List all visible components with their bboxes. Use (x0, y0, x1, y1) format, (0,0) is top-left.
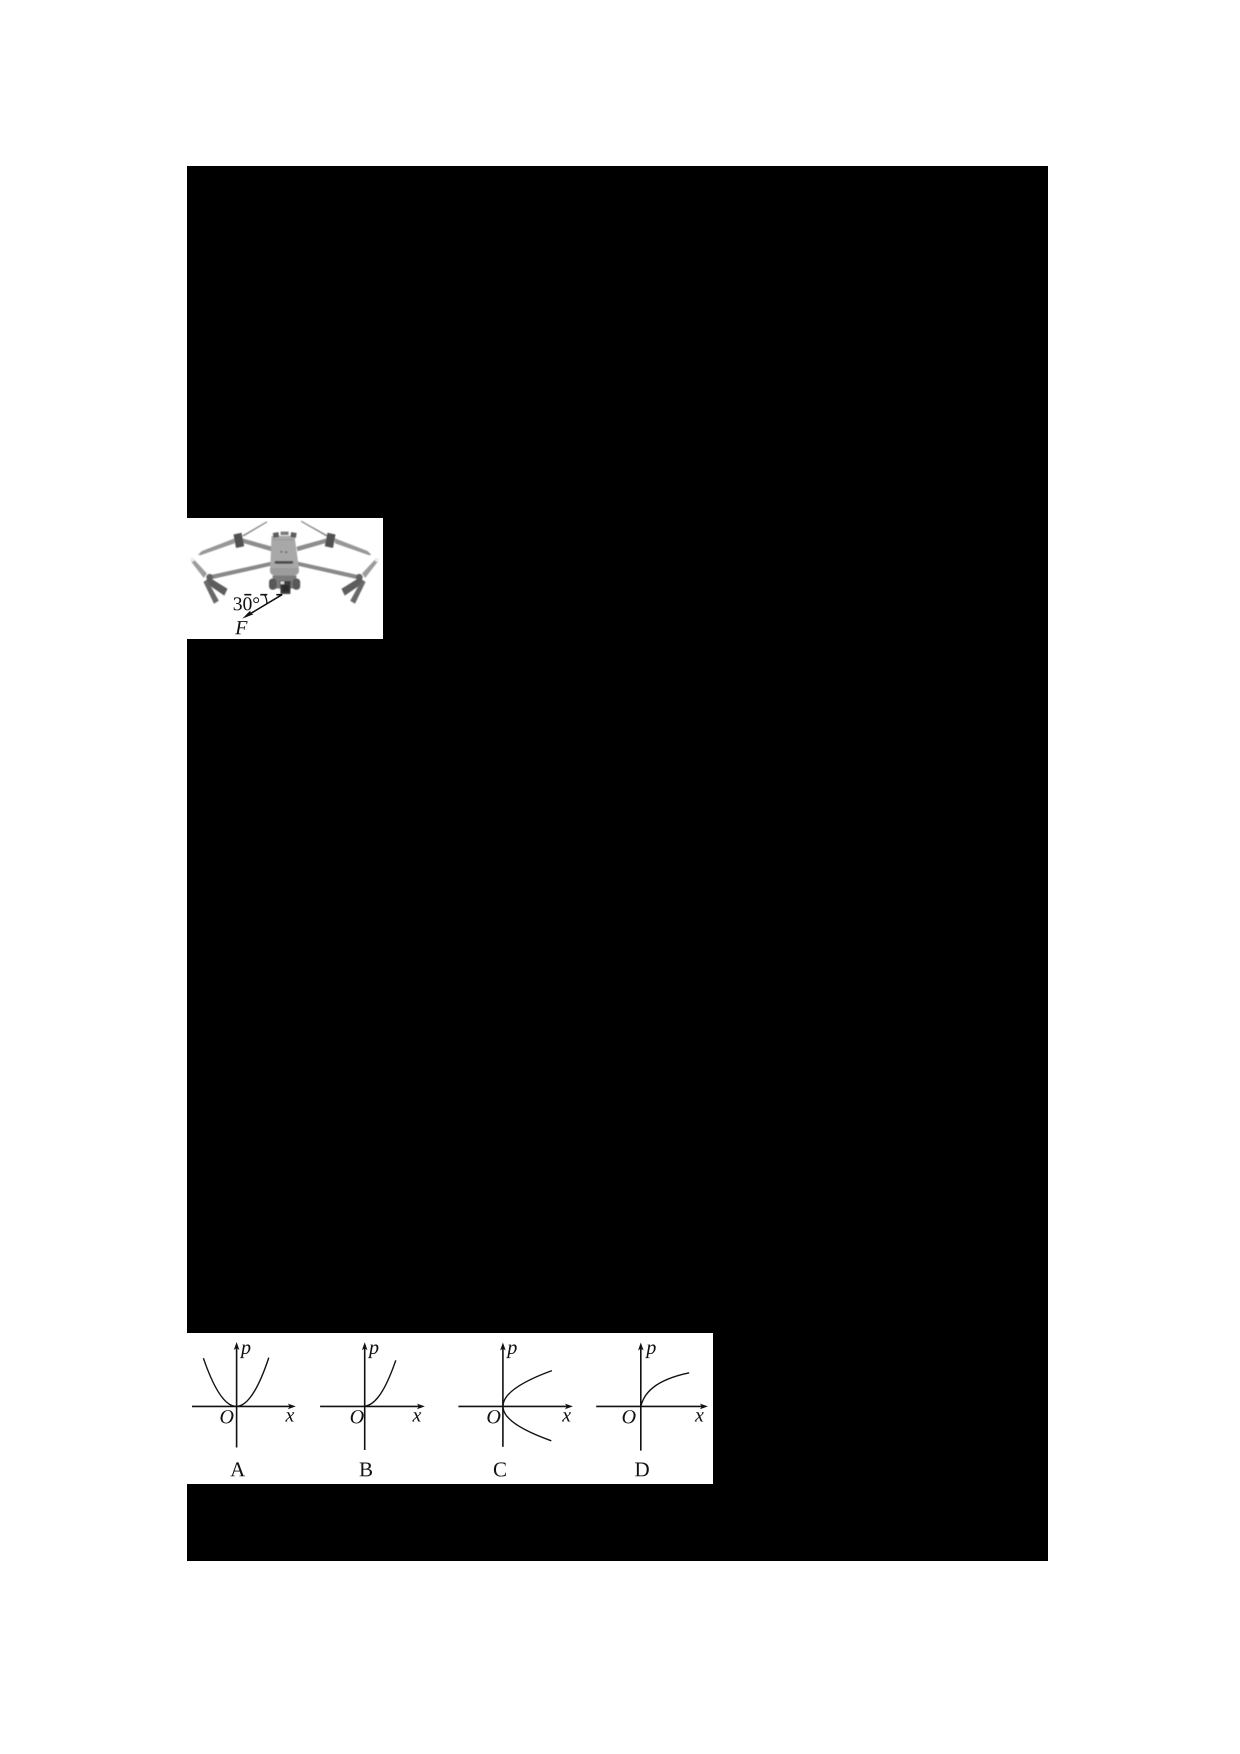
drone lower-right folded dark blade 1 (342, 577, 365, 596)
drone body shell (270, 535, 299, 575)
graph D label x (695, 1412, 704, 1421)
drone top-right wide propeller blade (334, 538, 371, 555)
graph D option letter D (635, 1462, 649, 1476)
graph C label p (506, 1344, 517, 1358)
drone body top sensor knobs (273, 532, 279, 538)
graph A label O (220, 1410, 233, 1423)
drone lower-right blade white tip (375, 557, 379, 561)
graph D label O (622, 1410, 635, 1423)
graph B exponential curve (365, 1360, 396, 1406)
drone arm lower-left (209, 561, 271, 579)
drone arm upper-left (238, 537, 272, 551)
drone top-left motor mount (234, 532, 245, 547)
graph D sqrt curve (641, 1372, 689, 1406)
angle arc 30 degrees (265, 594, 267, 603)
graph C label O (487, 1410, 500, 1423)
black content block (187, 166, 1048, 1561)
drone lower-right rotor hub (356, 574, 363, 581)
force arrow F shaft (246, 594, 283, 616)
dashed horizontal reference line (244, 593, 282, 595)
drone lower-left folded dark blade 1 (205, 577, 228, 596)
drone figure white box (187, 518, 383, 639)
graph A option letter A (230, 1462, 245, 1476)
graph D axis arrowheads (638, 1342, 644, 1350)
drone lower-left rotor hub (206, 574, 213, 581)
label F (235, 621, 248, 634)
graph B label O (351, 1410, 364, 1423)
graph B option letter B (359, 1462, 371, 1476)
graph B label p (368, 1344, 379, 1358)
drone arm lower-right (298, 561, 360, 579)
graph A label x (285, 1412, 294, 1421)
graph B axes (364, 1345, 366, 1450)
drone body hood edge (272, 538, 294, 540)
drone lower-right light blade (362, 559, 378, 578)
drone body lower band (270, 568, 299, 576)
drone lower-left folded dark blade 2 (204, 579, 219, 603)
drone thin edge-on propeller blade (top-left rotor) (243, 521, 268, 536)
force arrow F head (242, 610, 253, 618)
drone gimbal left cylinder (269, 578, 277, 589)
drone top-right motor mount (325, 532, 336, 547)
graph C axis arrowheads (500, 1342, 506, 1350)
label 30 degrees (234, 597, 259, 610)
drone body camera dots (280, 550, 282, 552)
graph A axes (235, 1345, 237, 1448)
graph B label x (412, 1412, 421, 1421)
drone lower-left light blade (191, 559, 207, 578)
drone body vent slot (275, 561, 294, 564)
drone camera lens inner (282, 585, 289, 592)
drone thin edge-on propeller blade (top-right rotor) (301, 520, 328, 536)
graph A label p (240, 1344, 251, 1358)
graph C sideways parabola curves (503, 1370, 552, 1406)
graphs white box (187, 1333, 713, 1484)
graph D label p (645, 1344, 656, 1358)
graph A parabola curve (203, 1357, 268, 1406)
graph A axis arrowheads (234, 1342, 240, 1350)
drone gimbal mount (273, 575, 297, 588)
drone camera lens glint (281, 581, 285, 584)
graph B axis arrowheads (362, 1342, 368, 1350)
graph C axes (502, 1345, 504, 1446)
drone camera lens block (280, 581, 291, 594)
graph D axes (640, 1345, 642, 1450)
graph C option letter C (494, 1462, 506, 1476)
drone lower-right folded dark blade 2 (350, 579, 365, 603)
drone top-left wide propeller blade (198, 538, 235, 555)
drone gimbal right cylinder (293, 578, 301, 589)
drone arm upper-right (297, 537, 331, 551)
drone lower-left blade white tip (190, 557, 194, 561)
graph C label x (562, 1412, 571, 1421)
